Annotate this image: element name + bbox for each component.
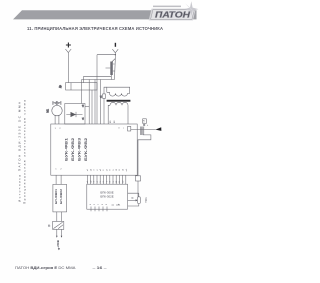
terminal X2 minus mark xyxy=(114,43,116,47)
board A2 arrow out xyxy=(112,204,120,205)
transformer T1 primary winding xyxy=(110,93,128,96)
bus wire xyxy=(82,59,116,80)
svg-text:БПК-302Е: БПК-302Е xyxy=(100,195,113,199)
transformer T1 core xyxy=(107,100,131,102)
stub rectifier to riser xyxy=(85,105,89,107)
shunt RS1 xyxy=(110,62,113,76)
mains down arrow xyxy=(58,248,60,250)
board A1 outline xyxy=(51,124,137,175)
transformer T1 secondary winding xyxy=(110,102,128,105)
svg-text:БП-ФВ01: БП-ФВ01 xyxy=(54,188,58,204)
fan M1 wires xyxy=(55,116,59,125)
fan M1 blades xyxy=(53,102,61,105)
header pin labels bottom row xyxy=(87,180,124,183)
terminal X1 plus mark xyxy=(66,43,71,48)
transformer feed box a2 xyxy=(103,94,106,99)
svg-text:БП-ФВ02: БП-ФВ02 xyxy=(59,188,63,204)
inline component box on branch xyxy=(136,176,141,181)
board A1 bottom-left pin labels xyxy=(55,169,62,171)
rectifier VD1 diode symbol xyxy=(66,114,82,116)
logo starburst xyxy=(184,1,198,16)
pot RP1 wires xyxy=(128,193,139,206)
node junction at X2 xyxy=(115,54,116,55)
bus risers into board A1 xyxy=(89,80,100,125)
breaker QF1 box xyxy=(53,221,64,229)
wire X2 to left riser xyxy=(97,54,115,56)
board A2 bottom pin labels xyxy=(90,203,108,205)
pot RP1 element xyxy=(138,197,141,204)
wires A3 to breaker xyxy=(57,212,62,222)
svg-text:М1: М1 xyxy=(45,108,49,112)
wire X2 down to shunt xyxy=(112,55,116,62)
wire choke to board A1 xyxy=(91,90,93,124)
connector X3 bars xyxy=(140,127,144,136)
wire box to pot xyxy=(128,181,138,197)
transformer T1 primary frame xyxy=(107,87,130,93)
wire a2 to board A1 xyxy=(103,98,105,124)
wire choke top branch xyxy=(84,76,111,82)
wires A1 to A3 xyxy=(56,175,61,184)
transformer T1 secondary frame xyxy=(108,105,128,124)
PATON logo plate xyxy=(149,9,196,21)
svg-text:ПАТОН ВДИ-серия Е DC MMA: ПАТОН ВДИ-серия Е DC MMA xyxy=(15,265,76,270)
svg-text:ПАТОН: ПАТОН xyxy=(155,11,191,20)
board A1 top pin labels xyxy=(55,120,124,131)
svg-text:ТО1: ТО1 xyxy=(144,197,148,203)
header banner xyxy=(13,10,197,19)
board A2 bottom pins xyxy=(91,207,107,212)
wire shunt to bus xyxy=(111,75,113,80)
wire holder branch down xyxy=(138,135,151,176)
svg-text:с: с xyxy=(123,128,124,130)
wire a2 to transformer frame xyxy=(104,87,107,94)
terminal X1 fork xyxy=(65,49,71,56)
board A3 outline xyxy=(53,184,67,212)
svg-text:БУК-ФВ2: БУК-ФВ2 xyxy=(71,138,75,161)
mains wires xyxy=(57,229,62,236)
svg-text:БУК-ФВ3: БУК-ФВ3 xyxy=(78,138,82,161)
bus riser into rectifier xyxy=(81,80,83,104)
logo tagline xyxy=(153,6,181,8)
output wire A1 to holder xyxy=(131,128,156,130)
board A2 outline xyxy=(87,184,128,209)
terminal X2 fork xyxy=(112,49,118,55)
board A1 output tap box xyxy=(128,126,131,131)
wire left riser into board A1 xyxy=(96,55,98,124)
svg-text:~230В: ~230В xyxy=(56,240,60,248)
electrode holder wedge xyxy=(155,127,161,131)
svg-text:– 16 –: – 16 – xyxy=(93,265,108,270)
svg-text:БУК-ФВ2: БУК-ФВ2 xyxy=(84,138,88,161)
fan M1 motor circle xyxy=(52,105,62,115)
rectifier VD1 box xyxy=(65,104,85,125)
board A1 bottom pin header xyxy=(87,175,125,184)
svg-text:БУК-ФВ1: БУК-ФВ1 xyxy=(65,138,69,161)
choke L1 xyxy=(66,83,97,90)
pot RP1 wiper arrow xyxy=(128,199,136,201)
svg-text:Источника ПАТОН ВДИ-250Е DC MM: Источника ПАТОН ВДИ-250Е DC MMA xyxy=(18,101,22,202)
wire X1 to choke xyxy=(67,56,69,83)
node circle near holder xyxy=(143,124,145,126)
breaker QF1 levers xyxy=(53,222,63,228)
header pin labels top row xyxy=(87,168,128,172)
svg-text:11. ПРИНЦИПИАЛЬНАЯ ЭЛЕКТРИЧЕСК: 11. ПРИНЦИПИАЛЬНАЯ ЭЛЕКТРИЧЕСКАЯ СХЕМА И… xyxy=(27,26,163,31)
capacitor C8 box xyxy=(143,119,147,124)
